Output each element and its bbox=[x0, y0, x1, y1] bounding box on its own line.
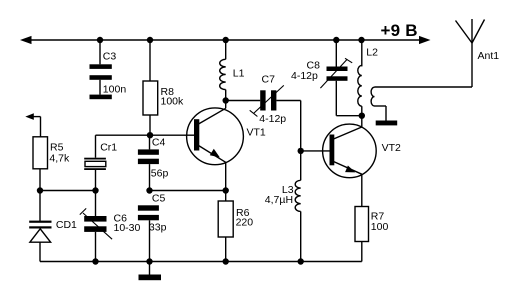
wire left net horizontal bbox=[40, 190, 96, 192]
label 100 bbox=[371, 221, 389, 233]
label R5 bbox=[50, 142, 64, 154]
label Ant1 bbox=[478, 50, 500, 62]
ground main bbox=[139, 275, 162, 281]
right arrowhead of supply rail (+9V) bbox=[419, 36, 431, 44]
trimmer capacitor C6 bbox=[80, 208, 112, 239]
node emitter VT1 bbox=[223, 187, 229, 193]
label L1 bbox=[233, 68, 245, 80]
wire R8 to base node bbox=[149, 115, 151, 135]
wire base net VT1 bbox=[96, 134, 195, 136]
svg-text:C3: C3 bbox=[103, 51, 117, 63]
wire bottom ground rail bbox=[40, 261, 362, 263]
wire C3 to ground bbox=[99, 80, 101, 95]
transistor VT2 bbox=[323, 124, 377, 206]
svg-text:220: 220 bbox=[236, 217, 254, 229]
label 33p bbox=[149, 222, 167, 234]
varicap diode CD1 bbox=[29, 221, 51, 243]
wire mid net horizontal bbox=[150, 190, 226, 192]
wire node to CD1 bbox=[39, 191, 41, 221]
wire top supply rail bbox=[27, 39, 421, 41]
wire rail to C3 bbox=[99, 40, 101, 64]
wire collector node to C7 bbox=[226, 100, 261, 102]
label CD1 bbox=[56, 219, 77, 231]
label C6 bbox=[114, 212, 128, 224]
label 4-12p C7 bbox=[259, 113, 286, 125]
wire R6 to bottom rail bbox=[225, 237, 227, 262]
svg-text:Cr1: Cr1 bbox=[100, 142, 117, 154]
label 4,7µH bbox=[265, 194, 293, 206]
svg-text:C4: C4 bbox=[152, 136, 166, 148]
wire rail to C8 bbox=[335, 40, 337, 67]
node rail-R8 bbox=[147, 37, 153, 43]
transistor VT1 bbox=[187, 101, 244, 191]
inductor L1 bbox=[220, 59, 226, 89]
label 4-12p C8 bbox=[291, 70, 318, 82]
resistor R5 bbox=[33, 137, 48, 169]
input arrow to R5 bbox=[25, 113, 40, 137]
inductor L3 bbox=[295, 180, 301, 211]
label R7 bbox=[371, 211, 385, 223]
node Cr1-C6 bbox=[92, 187, 98, 193]
wire R7 to bottom rail bbox=[361, 242, 363, 262]
svg-text:56p: 56p bbox=[151, 167, 169, 179]
label L3 bbox=[282, 184, 294, 196]
svg-text:Ant1: Ant1 bbox=[478, 50, 500, 62]
inductor L2 secondary bbox=[371, 87, 374, 106]
node R5-CD1 bbox=[37, 187, 43, 193]
wire C8 to collector node VT2 bbox=[336, 81, 362, 116]
label C8 bbox=[307, 60, 321, 72]
wire CD1 to bottom rail bbox=[39, 242, 41, 261]
label 4,7k bbox=[49, 153, 70, 165]
label R6 bbox=[236, 207, 250, 219]
svg-text:100n: 100n bbox=[103, 83, 127, 95]
wire Cr1 to left net bbox=[95, 170, 97, 191]
label Cr1 bbox=[100, 142, 117, 154]
node rail-C3 bbox=[97, 37, 103, 43]
resistor R7 bbox=[355, 207, 369, 242]
node R8-base bbox=[147, 132, 153, 138]
node rail-L3 bbox=[298, 258, 304, 264]
wire C5 to bottom rail bbox=[149, 220, 151, 261]
wire C6 to bottom rail bbox=[95, 232, 97, 262]
label VT1 bbox=[247, 126, 266, 138]
wire secondary to ground bbox=[375, 106, 387, 121]
node C4-C5 bbox=[146, 187, 152, 193]
wire R5 to node bbox=[39, 169, 41, 191]
svg-text:CD1: CD1 bbox=[56, 219, 77, 231]
label 220 bbox=[236, 217, 254, 229]
wire emitter to R6 bbox=[225, 191, 227, 202]
ground below C3 bbox=[90, 95, 112, 100]
svg-text:4-12p: 4-12p bbox=[291, 70, 318, 82]
wire VT2 base bbox=[301, 150, 330, 152]
node collector VT1 / C7 bbox=[223, 97, 229, 103]
node C7-L3-base VT2 bbox=[298, 148, 304, 154]
node rail-C6 bbox=[92, 258, 98, 264]
wire base node to C4 bbox=[149, 135, 151, 149]
label L2 bbox=[366, 46, 378, 58]
antenna Ant1 bbox=[456, 19, 485, 43]
resistor R8 bbox=[143, 81, 158, 115]
trimmer capacitor C7 bbox=[250, 85, 284, 116]
resistor R6 bbox=[218, 201, 233, 237]
label C3 bbox=[103, 51, 117, 63]
svg-text:VT2: VT2 bbox=[382, 142, 401, 154]
ground below L2 secondary bbox=[376, 121, 398, 126]
wire down to crystal bbox=[95, 135, 97, 158]
label +9 В bbox=[381, 21, 418, 40]
node rail-R6 bbox=[223, 258, 229, 264]
label C4 bbox=[152, 136, 166, 148]
trimmer capacitor C8 bbox=[320, 58, 352, 88]
svg-text:4-12p: 4-12p bbox=[259, 113, 286, 125]
inductor L2 primary bbox=[358, 65, 362, 106]
wire C4 to mid node bbox=[149, 164, 151, 190]
node rail-C5 bbox=[146, 258, 152, 264]
capacitor C3 bbox=[90, 64, 112, 79]
wire C7 to VT2 base node bbox=[276, 101, 300, 151]
svg-text:L1: L1 bbox=[233, 68, 245, 80]
label 100k bbox=[161, 96, 185, 108]
label 10-30 bbox=[114, 222, 141, 234]
svg-text:100: 100 bbox=[371, 221, 389, 233]
svg-text:C5: C5 bbox=[152, 192, 166, 204]
label C7 bbox=[262, 74, 276, 86]
wire stub to main ground bbox=[149, 262, 151, 275]
svg-text:10-30: 10-30 bbox=[114, 222, 141, 234]
wire node to C6 bbox=[95, 191, 97, 217]
svg-text:C7: C7 bbox=[262, 74, 276, 86]
left arrowhead of supply rail bbox=[20, 36, 32, 44]
capacitor C4 bbox=[138, 149, 159, 164]
wire secondary to antenna bbox=[375, 43, 473, 87]
svg-text:4,7µH: 4,7µH bbox=[265, 194, 293, 206]
wire L1 to collector node bbox=[225, 90, 227, 101]
capacitor C5 bbox=[138, 205, 159, 220]
svg-text:+9 В: +9 В bbox=[381, 21, 418, 40]
crystal Cr1 bbox=[84, 158, 106, 170]
svg-text:VT1: VT1 bbox=[247, 126, 266, 138]
label R8 bbox=[161, 86, 175, 98]
label 56p bbox=[151, 167, 169, 179]
label 100n bbox=[103, 83, 127, 95]
node rail-L1 bbox=[223, 37, 229, 43]
node rail-C8 bbox=[333, 37, 339, 43]
wire L3 to bottom rail bbox=[300, 211, 302, 261]
wire rail to L1 bbox=[225, 40, 227, 59]
node collector VT2 bbox=[359, 113, 365, 119]
wire node to L3 bbox=[300, 151, 302, 180]
label VT2 bbox=[382, 142, 401, 154]
label C5 bbox=[152, 192, 166, 204]
svg-text:4,7k: 4,7k bbox=[49, 153, 70, 165]
svg-text:L2: L2 bbox=[366, 46, 378, 58]
svg-text:33p: 33p bbox=[149, 222, 167, 234]
node rail-L2 bbox=[358, 37, 364, 43]
wire rail to R8 bbox=[149, 40, 151, 81]
wire rail to L2 bbox=[361, 40, 363, 66]
wire L2 to collector node VT2 bbox=[361, 106, 363, 127]
svg-text:100k: 100k bbox=[161, 96, 185, 108]
